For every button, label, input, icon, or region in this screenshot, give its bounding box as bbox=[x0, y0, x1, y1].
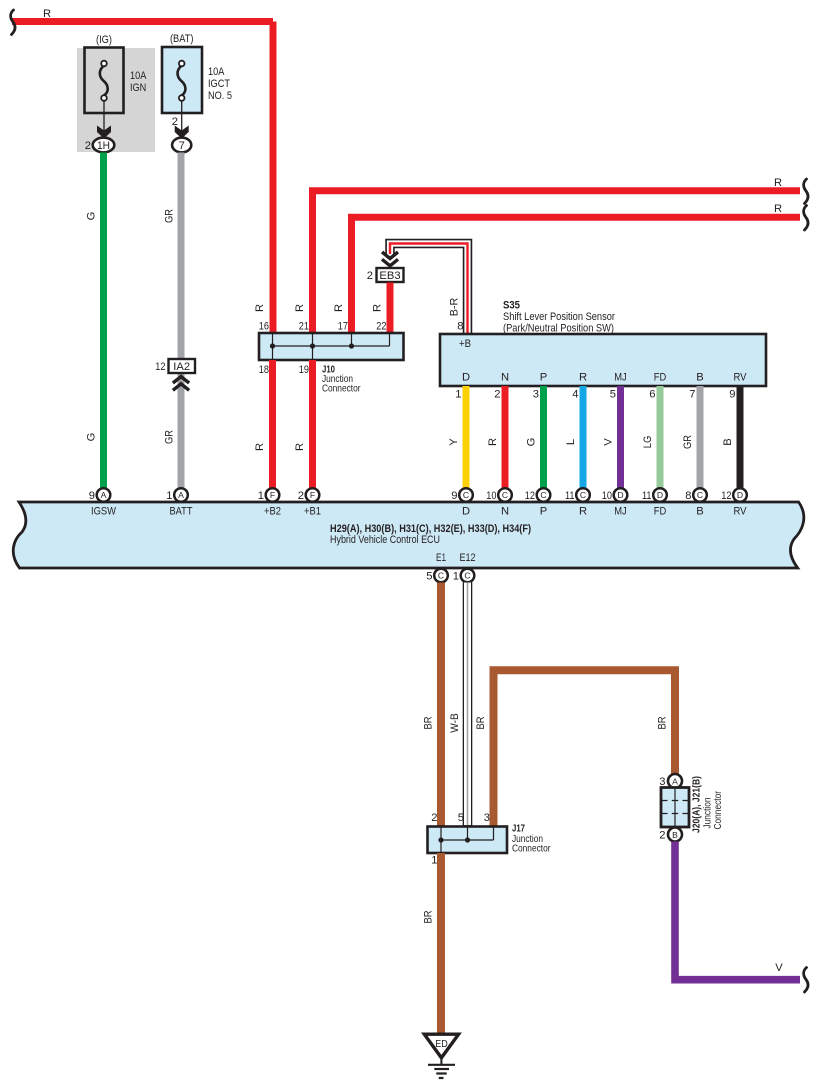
connector circle A of J20 bbox=[668, 774, 682, 788]
svg-text:N: N bbox=[501, 506, 509, 518]
svg-text:E12: E12 bbox=[460, 552, 476, 564]
svg-text:P: P bbox=[540, 372, 547, 384]
svg-text:BR: BR bbox=[657, 717, 669, 730]
wire W-B from E12 to J17 pin 5 bbox=[463, 583, 473, 827]
svg-text:5: 5 bbox=[458, 812, 464, 824]
break symbol left end of wire R bbox=[11, 10, 15, 35]
svg-text:GR: GR bbox=[164, 430, 176, 444]
ECU top pin MJ 10(D) bbox=[602, 488, 628, 517]
break symbol right wire 2 bbox=[804, 206, 808, 231]
svg-text:C: C bbox=[464, 571, 470, 581]
wire GR gray from 7 to ECU BATT bbox=[178, 153, 185, 490]
svg-text:+B1: +B1 bbox=[304, 506, 321, 518]
svg-text:BR: BR bbox=[475, 717, 487, 730]
svg-text:D: D bbox=[657, 490, 663, 500]
wire R top horizontal from left break to J10 pin 16 bbox=[12, 22, 273, 334]
junction connector J10 bbox=[259, 333, 404, 360]
ECU top pin BATT 1(A) bbox=[166, 488, 192, 517]
svg-text:1: 1 bbox=[453, 571, 459, 583]
svg-text:C: C bbox=[540, 490, 546, 500]
wire BR brown from E1 to J17 pin 2 bbox=[437, 583, 445, 828]
connector EB3 bbox=[377, 268, 404, 282]
svg-text:W-B: W-B bbox=[449, 713, 461, 733]
svg-text:Connector: Connector bbox=[512, 844, 551, 855]
svg-text:Hybrid Vehicle Control ECU: Hybrid Vehicle Control ECU bbox=[330, 534, 440, 546]
svg-text:GR: GR bbox=[164, 209, 176, 223]
wire R red N bbox=[502, 386, 509, 489]
svg-text:MJ: MJ bbox=[614, 506, 627, 518]
svg-text:1: 1 bbox=[258, 490, 264, 502]
wire LG light green FD bbox=[657, 386, 664, 489]
svg-text:17: 17 bbox=[338, 321, 348, 333]
svg-text:10: 10 bbox=[486, 490, 496, 502]
arrow into 1H bbox=[97, 126, 111, 139]
wire G green from 1H to ECU IGSW bbox=[100, 153, 107, 490]
ground symbol bbox=[428, 1057, 455, 1078]
ECU bottom pin E12 1(C) bbox=[453, 552, 476, 583]
svg-text:R: R bbox=[294, 304, 306, 312]
svg-text:C: C bbox=[502, 490, 508, 500]
svg-text:19: 19 bbox=[299, 364, 309, 376]
break symbol right wire 1 bbox=[804, 179, 808, 204]
svg-text:2: 2 bbox=[659, 830, 665, 842]
svg-text:(Park/Neutral Position SW): (Park/Neutral Position SW) bbox=[503, 323, 614, 335]
svg-text:B: B bbox=[696, 372, 703, 384]
svg-text:10: 10 bbox=[602, 490, 612, 502]
junction connector J20/J21 box bbox=[661, 788, 689, 828]
svg-text:IGSW: IGSW bbox=[91, 506, 116, 518]
svg-text:E1: E1 bbox=[436, 552, 446, 564]
svg-text:11: 11 bbox=[642, 490, 652, 502]
ECU top pin P 12(C) bbox=[525, 488, 551, 517]
wire Y yellow D bbox=[463, 386, 470, 489]
S35 Shift Lever Position Sensor box bbox=[440, 334, 766, 386]
fuse (IG) 10A IGN bbox=[85, 48, 124, 114]
svg-text:3: 3 bbox=[533, 389, 539, 401]
shield chevrons above EB3 bbox=[382, 252, 398, 266]
svg-text:C: C bbox=[697, 490, 703, 500]
svg-text:2: 2 bbox=[367, 270, 373, 282]
svg-text:D: D bbox=[462, 372, 470, 384]
wire B black RV bbox=[737, 386, 744, 489]
svg-text:4: 4 bbox=[572, 389, 578, 401]
connector circle B of J20 bbox=[668, 828, 682, 842]
svg-text:Connector: Connector bbox=[322, 384, 361, 395]
svg-text:GR: GR bbox=[682, 435, 694, 449]
svg-text:IGN: IGN bbox=[130, 82, 146, 94]
wire R from J10 pin 21 up and right to break bbox=[313, 189, 801, 333]
wire V violet from J20 B down and right to break bbox=[671, 842, 800, 980]
svg-text:7: 7 bbox=[689, 389, 695, 401]
svg-text:B: B bbox=[696, 506, 703, 518]
svg-text:R: R bbox=[254, 443, 266, 451]
shield chevrons below IA2 bbox=[173, 377, 189, 391]
wire from fuse IG to connector 1H bbox=[103, 100, 105, 131]
svg-text:16: 16 bbox=[259, 321, 269, 333]
ECU top pin FD 11(D) bbox=[642, 488, 667, 517]
svg-text:R: R bbox=[333, 304, 345, 312]
svg-text:R: R bbox=[43, 8, 51, 20]
svg-text:5: 5 bbox=[426, 571, 432, 583]
svg-text:V: V bbox=[775, 962, 783, 974]
svg-text:BR: BR bbox=[423, 717, 435, 730]
svg-text:12: 12 bbox=[525, 490, 535, 502]
svg-text:12: 12 bbox=[721, 490, 731, 502]
svg-text:RV: RV bbox=[734, 372, 747, 384]
svg-text:22: 22 bbox=[376, 321, 386, 333]
svg-text:D: D bbox=[462, 506, 470, 518]
svg-text:FD: FD bbox=[654, 372, 667, 384]
wire R from EB3 to J10 pin 22 bbox=[387, 283, 394, 334]
svg-text:9: 9 bbox=[729, 389, 735, 401]
svg-text:MJ: MJ bbox=[614, 372, 627, 384]
svg-text:1: 1 bbox=[431, 855, 437, 867]
svg-text:R: R bbox=[372, 304, 384, 312]
svg-text:R: R bbox=[487, 438, 499, 446]
svg-text:21: 21 bbox=[299, 321, 309, 333]
svg-text:18: 18 bbox=[259, 364, 269, 376]
svg-text:1H: 1H bbox=[97, 140, 110, 152]
svg-text:+B2: +B2 bbox=[264, 506, 281, 518]
svg-text:IGCT: IGCT bbox=[208, 78, 230, 90]
wire L light blue R bbox=[580, 386, 587, 489]
svg-text:BATT: BATT bbox=[170, 506, 193, 518]
svg-text:J17: J17 bbox=[512, 824, 525, 835]
svg-text:G: G bbox=[86, 433, 98, 442]
ECU top pin B 8(C) bbox=[685, 488, 707, 517]
S35 bottom terminal labels bbox=[462, 372, 747, 384]
ECU top pin RV 12(D) bbox=[721, 488, 747, 517]
ECU top pin +B2 1(F) bbox=[258, 488, 281, 517]
svg-text:G: G bbox=[86, 212, 98, 221]
wire BR brown from J17 pin 3 up over to J20 pin A bbox=[494, 670, 676, 827]
svg-text:12: 12 bbox=[155, 361, 165, 373]
svg-text:C: C bbox=[438, 571, 444, 581]
svg-text:R: R bbox=[254, 304, 266, 312]
arrow into 7 bbox=[175, 126, 189, 139]
wire GR gray B bbox=[697, 386, 704, 489]
ECU top pin IGSW 9(A) bbox=[89, 488, 117, 517]
wire G green P bbox=[540, 386, 547, 489]
svg-text:A: A bbox=[672, 776, 678, 786]
svg-text:F: F bbox=[310, 490, 315, 500]
svg-text:Shift Lever Position Sensor: Shift Lever Position Sensor bbox=[503, 311, 615, 323]
svg-text:A: A bbox=[178, 490, 184, 500]
svg-text:C: C bbox=[463, 490, 469, 500]
fuse (BAT) 10A IGCT NO.5 bbox=[162, 47, 202, 113]
svg-text:G: G bbox=[526, 438, 538, 447]
svg-text:S35: S35 bbox=[503, 300, 520, 312]
svg-text:9: 9 bbox=[89, 490, 95, 502]
svg-text:B: B bbox=[722, 438, 734, 445]
svg-text:F: F bbox=[270, 490, 275, 500]
svg-text:NO. 5: NO. 5 bbox=[208, 90, 232, 102]
ECU top pin +B1 2(F) bbox=[298, 488, 321, 517]
svg-text:1: 1 bbox=[166, 490, 172, 502]
svg-text:D: D bbox=[617, 490, 623, 500]
wire from fuse BAT to connector 7 bbox=[181, 100, 183, 131]
svg-text:LG: LG bbox=[642, 436, 654, 449]
svg-text:10A: 10A bbox=[130, 70, 147, 82]
svg-text:B-R: B-R bbox=[449, 298, 461, 317]
svg-text:2: 2 bbox=[494, 389, 500, 401]
break symbol V wire bbox=[804, 968, 808, 993]
svg-text:ED: ED bbox=[435, 1039, 448, 1050]
svg-text:+B: +B bbox=[459, 338, 471, 350]
svg-text:11: 11 bbox=[565, 490, 575, 502]
ECU top pin R 11(C) bbox=[565, 488, 590, 517]
svg-text:RV: RV bbox=[734, 506, 747, 518]
svg-text:C: C bbox=[580, 490, 586, 500]
wire R from J10 pin 17 up and right to break bbox=[352, 215, 801, 333]
svg-text:L: L bbox=[565, 439, 577, 445]
svg-text:R: R bbox=[579, 372, 587, 384]
svg-text:Junction: Junction bbox=[703, 798, 714, 829]
wire BR brown from J17 pin 1 to ground ED bbox=[437, 853, 445, 1034]
svg-text:1: 1 bbox=[455, 389, 461, 401]
ECU top pin N 10(C) bbox=[486, 488, 512, 517]
wire R from J10 pin 19 to ECU +B1 bbox=[309, 360, 316, 489]
connector oval 1H bbox=[93, 138, 115, 153]
svg-text:J20(A), J21(B): J20(A), J21(B) bbox=[692, 776, 703, 833]
Hybrid Vehicle Control ECU box bbox=[13, 502, 804, 568]
ECU top pin D 9(C) bbox=[451, 488, 473, 517]
svg-text:6: 6 bbox=[649, 389, 655, 401]
junction connector J17 bbox=[428, 827, 508, 854]
svg-text:R: R bbox=[294, 443, 306, 451]
connector IA2 on wire GR bbox=[169, 359, 196, 373]
svg-text:FD: FD bbox=[654, 506, 667, 518]
svg-text:EB3: EB3 bbox=[379, 270, 400, 282]
svg-text:(BAT): (BAT) bbox=[170, 33, 194, 45]
svg-text:2: 2 bbox=[298, 490, 304, 502]
svg-text:Y: Y bbox=[448, 438, 460, 446]
gray background block of (IG) fuse bbox=[77, 48, 155, 152]
S35 pin numbers below box bbox=[455, 389, 735, 401]
ground ED triangle bbox=[424, 1034, 458, 1058]
svg-text:R: R bbox=[774, 203, 782, 215]
svg-text:N: N bbox=[501, 372, 509, 384]
svg-text:R: R bbox=[579, 506, 587, 518]
wire B-R shielded from EB3 to S35 +B bbox=[390, 244, 468, 335]
svg-text:R: R bbox=[774, 177, 782, 189]
svg-text:P: P bbox=[540, 506, 547, 518]
svg-text:2: 2 bbox=[431, 812, 437, 824]
svg-text:IA2: IA2 bbox=[173, 361, 190, 373]
svg-text:10A: 10A bbox=[208, 66, 225, 78]
svg-text:5: 5 bbox=[610, 389, 616, 401]
wire R from J10 pin 18 to ECU +B2 bbox=[269, 360, 276, 489]
svg-text:9: 9 bbox=[451, 490, 457, 502]
svg-text:8: 8 bbox=[457, 321, 463, 333]
wire V violet MJ bbox=[617, 386, 624, 489]
svg-text:V: V bbox=[603, 438, 615, 446]
svg-text:8: 8 bbox=[685, 490, 691, 502]
svg-text:A: A bbox=[101, 490, 107, 500]
svg-text:BR: BR bbox=[423, 911, 435, 924]
svg-text:D: D bbox=[737, 490, 743, 500]
ECU bottom pin E1 5(C) bbox=[426, 552, 448, 583]
svg-text:B: B bbox=[672, 830, 678, 840]
svg-text:3: 3 bbox=[484, 812, 490, 824]
svg-text:(IG): (IG) bbox=[96, 34, 112, 46]
svg-text:7: 7 bbox=[179, 140, 185, 152]
svg-text:Connector: Connector bbox=[713, 791, 724, 830]
connector oval 7 bbox=[172, 138, 191, 153]
svg-text:2: 2 bbox=[85, 140, 91, 152]
